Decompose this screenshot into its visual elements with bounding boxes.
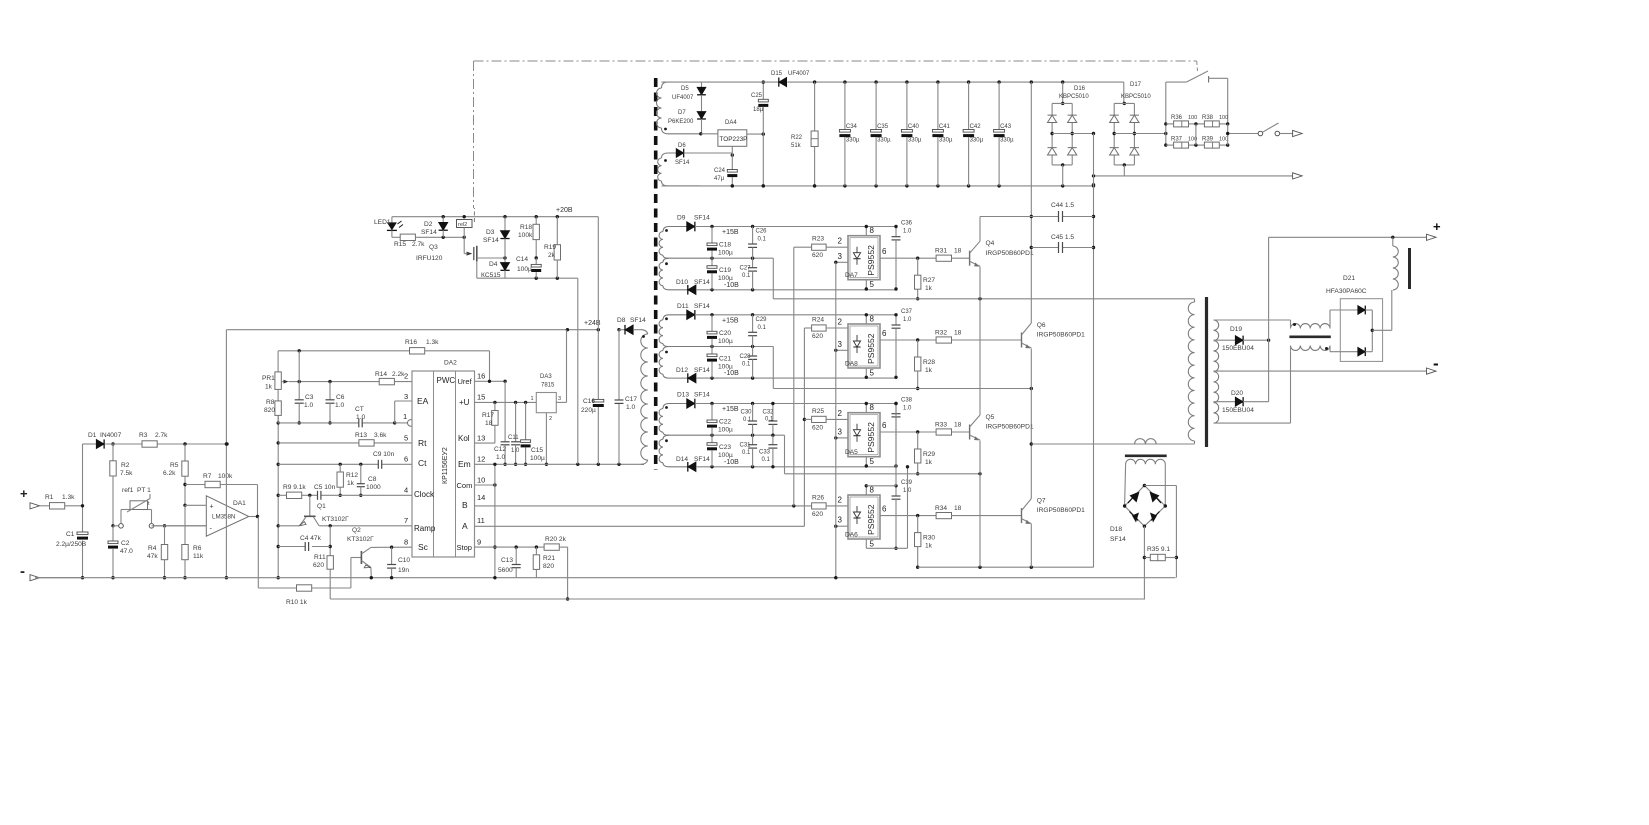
IGBT Q6 IRGP50B60PD1	[1021, 333, 1023, 348]
svg-text:7.5k: 7.5k	[120, 470, 133, 477]
svg-text:0.1: 0.1	[758, 237, 767, 243]
wire DA6 pin8	[865, 486, 867, 495]
wire output plus line	[1269, 236, 1427, 238]
wire 7815 output	[556, 401, 566, 403]
svg-text:7815: 7815	[541, 383, 555, 389]
svg-text:330µ: 330µ	[908, 138, 922, 144]
svg-text:IRGP50B60PD1: IRGP50B60PD1	[1037, 507, 1085, 514]
capacitor C14	[535, 258, 537, 264]
wire DA7 pin3	[836, 261, 848, 263]
svg-text:C27: C27	[740, 266, 752, 272]
wire ch4 pin5 row	[866, 547, 907, 549]
capacitor C17	[615, 399, 624, 401]
resistor R18	[535, 217, 537, 225]
svg-text:620: 620	[812, 511, 823, 518]
svg-text:D3: D3	[486, 229, 495, 236]
svg-text:ref1: ref1	[122, 487, 134, 494]
svg-text:PT 1: PT 1	[137, 487, 151, 494]
svg-text:R13: R13	[355, 432, 367, 439]
wire ch1 common line	[772, 258, 774, 299]
svg-text:IRGP50B60PD1: IRGP50B60PD1	[986, 424, 1034, 431]
svg-text:R7: R7	[203, 473, 212, 480]
svg-text:14: 14	[477, 493, 485, 502]
svg-text:PS9552: PS9552	[866, 504, 876, 535]
svg-text:D16: D16	[1074, 86, 1086, 92]
svg-text:8: 8	[870, 226, 875, 235]
wire Ramp row pin7	[319, 525, 412, 527]
capacitor C25	[762, 82, 764, 99]
border dash-dot chassis outline	[474, 60, 1197, 62]
capacitor C29	[752, 315, 754, 333]
diode D6	[676, 149, 683, 158]
svg-text:C21: C21	[719, 356, 731, 363]
svg-text:1: 1	[531, 396, 534, 402]
svg-text:UF4007: UF4007	[672, 95, 694, 101]
svg-text:11k: 11k	[193, 553, 204, 560]
svg-text:SF14: SF14	[421, 229, 437, 236]
svg-text:9: 9	[477, 538, 481, 547]
wire bottom DC rail	[662, 185, 1094, 187]
svg-text:D1: D1	[88, 432, 97, 439]
resistor R38	[1204, 121, 1219, 127]
svg-text:2: 2	[404, 372, 408, 381]
wire C44 row	[980, 216, 1059, 218]
wire B trunk to R23	[793, 247, 795, 506]
wire output minus line	[1214, 370, 1427, 372]
svg-text:PS9552: PS9552	[866, 333, 876, 364]
svg-text:DA3: DA3	[540, 374, 552, 380]
svg-text:P6KE200: P6KE200	[668, 119, 694, 125]
svg-text:R39: R39	[1202, 137, 1214, 143]
svg-text:C28: C28	[740, 354, 752, 360]
wire D18 bottom to R35 left	[1143, 526, 1145, 557]
svg-text:IRFU120: IRFU120	[416, 255, 443, 262]
svg-text:IN4007: IN4007	[100, 432, 122, 439]
wire TOP223 control pin	[731, 146, 733, 155]
opto-driver DA6 PS9552	[848, 495, 880, 539]
svg-text:C43: C43	[1000, 124, 1012, 130]
svg-text:+15B: +15B	[722, 229, 739, 236]
wire DA7 pin5	[865, 280, 867, 289]
resistor R20	[544, 544, 559, 550]
resistor R1	[50, 503, 65, 509]
svg-text:1k: 1k	[347, 480, 355, 487]
diode D15	[779, 78, 787, 87]
svg-text:D8: D8	[617, 317, 626, 324]
svg-text:R9 9.1k: R9 9.1k	[283, 484, 306, 491]
svg-text:R6: R6	[193, 545, 202, 552]
resistor R14	[379, 378, 394, 384]
resistor R16	[410, 348, 425, 354]
svg-text:Q3: Q3	[429, 244, 438, 251]
svg-text:DA1: DA1	[233, 500, 246, 507]
svg-text:D12: D12	[676, 367, 688, 374]
diode D9	[687, 222, 695, 232]
capacitor C30	[752, 404, 754, 422]
svg-text:100: 100	[1219, 115, 1228, 121]
resistor R7	[185, 484, 205, 486]
svg-text:D4: D4	[489, 261, 498, 268]
svg-text:UF4007: UF4007	[788, 71, 810, 77]
svg-text:SF14: SF14	[694, 367, 710, 374]
svg-text:1.0: 1.0	[335, 402, 344, 409]
svg-text:R35 9.1: R35 9.1	[1147, 546, 1170, 553]
svg-text:DA8: DA8	[845, 361, 858, 368]
capacitor C22	[711, 404, 713, 421]
transformer T1 secondary winding ch2 upper	[663, 315, 687, 320]
svg-text:2: 2	[549, 416, 552, 422]
wire opto pin3 trunk	[835, 262, 837, 577]
svg-text:3: 3	[838, 516, 843, 525]
svg-text:IRGP50B60PD1: IRGP50B60PD1	[986, 250, 1034, 257]
svg-text:R28: R28	[923, 359, 935, 366]
svg-text:R1: R1	[45, 494, 54, 501]
transformer T4 current sense primary	[1135, 439, 1157, 444]
svg-text:0.1: 0.1	[742, 362, 751, 368]
svg-text:C16: C16	[583, 398, 595, 405]
svg-text:DA7: DA7	[845, 272, 858, 279]
svg-text:D11: D11	[677, 303, 689, 310]
wire DA7 pin8	[865, 227, 867, 236]
svg-text:+U: +U	[459, 398, 470, 407]
svg-text:C23: C23	[719, 444, 731, 451]
wire rectifier cathode bus	[1268, 237, 1270, 401]
IGBT Q7 IRGP50B60PD1	[1021, 508, 1023, 523]
svg-text:R2: R2	[121, 462, 130, 469]
diode D12	[688, 373, 696, 383]
svg-text:0.1: 0.1	[765, 417, 774, 423]
svg-text:1k: 1k	[925, 543, 933, 550]
wire 7815 gnd pin2	[545, 413, 547, 465]
svg-text:18: 18	[954, 505, 962, 512]
svg-text:Q1: Q1	[317, 503, 326, 510]
opto-driver DA8 PS9552	[848, 324, 880, 368]
svg-text:SF14: SF14	[694, 215, 710, 222]
wire Com row pin10	[475, 484, 495, 486]
svg-text:5: 5	[404, 434, 408, 443]
svg-text:HFA30PA60C: HFA30PA60C	[1326, 288, 1367, 295]
svg-text:D9: D9	[677, 215, 686, 222]
wire ch2 common line	[772, 347, 774, 389]
svg-text:R24: R24	[812, 317, 824, 324]
wire DA7 output row	[880, 257, 936, 259]
wire +20B drop	[597, 217, 599, 400]
svg-text:D7: D7	[678, 110, 686, 116]
capacitor C6	[329, 382, 331, 400]
wire ch4 supply from ch3 +15B	[895, 404, 897, 486]
svg-text:330µ: 330µ	[939, 138, 953, 144]
svg-text:1000: 1000	[366, 484, 381, 491]
svg-text:C17: C17	[625, 396, 637, 403]
svg-text:2.2µ/250B: 2.2µ/250B	[56, 541, 87, 548]
svg-text:2: 2	[838, 409, 843, 418]
svg-text:A: A	[462, 521, 468, 531]
capacitor C21	[711, 347, 713, 355]
svg-text:Kol: Kol	[458, 434, 470, 443]
capacitor bank C34 C35 C40 C41 C42 C43	[844, 82, 846, 129]
svg-text:620: 620	[812, 252, 823, 259]
svg-text:C37: C37	[901, 309, 913, 315]
svg-text:-10B: -10B	[724, 282, 739, 289]
svg-text:C4 47k: C4 47k	[300, 535, 322, 542]
diode D19 150EBU04	[1214, 339, 1236, 341]
svg-text:Em: Em	[458, 459, 471, 469]
wire ch2 -10B rail	[696, 377, 896, 379]
svg-text:330µ: 330µ	[846, 138, 860, 144]
svg-text:C39: C39	[901, 480, 913, 486]
inductor output choke winding A	[1291, 324, 1331, 329]
svg-text:+: +	[20, 486, 28, 501]
svg-text:330µ: 330µ	[877, 138, 891, 144]
diode D21b	[1358, 347, 1365, 356]
svg-text:100µ: 100µ	[718, 250, 733, 257]
capacitor C3	[298, 351, 300, 400]
capacitor C19	[711, 258, 713, 266]
capacitor C23	[711, 435, 713, 443]
svg-text:Stop: Stop	[457, 543, 472, 552]
wire ch3 -10B rail	[696, 466, 896, 468]
wire DA8 pin5	[865, 368, 867, 377]
svg-text:18: 18	[954, 422, 962, 429]
svg-text:R32: R32	[935, 330, 947, 337]
svg-text:R22: R22	[791, 135, 803, 141]
capacitor C9	[377, 460, 379, 469]
wire TOP223 source to C25	[747, 133, 764, 135]
svg-text:Ramp: Ramp	[414, 524, 436, 533]
zener D4	[504, 258, 506, 263]
svg-text:5: 5	[870, 369, 875, 378]
svg-text:1.0: 1.0	[496, 454, 505, 461]
capacitor C18	[711, 227, 713, 244]
IC DA2 KR1156EU2 PWM controller	[412, 371, 475, 557]
svg-text:1.0: 1.0	[304, 402, 313, 409]
svg-text:C26: C26	[756, 229, 768, 235]
svg-text:KT3102Г: KT3102Г	[322, 516, 349, 523]
svg-text:100µ: 100µ	[718, 338, 733, 345]
svg-text:1.0: 1.0	[903, 229, 912, 235]
LED LED1	[391, 217, 393, 223]
svg-text:+15B: +15B	[722, 317, 739, 324]
svg-text:1k: 1k	[925, 367, 933, 374]
svg-text:Clock: Clock	[414, 490, 435, 499]
IC DA4 TOP223P	[718, 130, 747, 147]
resistor R2	[112, 444, 114, 461]
capacitor C26	[752, 227, 754, 245]
svg-text:R4: R4	[148, 545, 157, 552]
svg-text:D20: D20	[1231, 390, 1243, 397]
resistor R5	[184, 444, 186, 461]
svg-text:13: 13	[477, 434, 485, 443]
svg-text:Sc: Sc	[418, 542, 429, 552]
svg-text:C9 10n: C9 10n	[373, 451, 395, 458]
svg-text:D13: D13	[677, 392, 689, 399]
svg-text:KBPC5010: KBPC5010	[1059, 94, 1089, 100]
svg-text:0.1: 0.1	[742, 450, 751, 456]
wire ch4 minus10 link	[907, 467, 909, 549]
svg-text:Q5: Q5	[986, 414, 995, 421]
wire ch1 mid rail	[712, 257, 773, 259]
svg-text:C33: C33	[759, 450, 771, 456]
svg-text:R12: R12	[346, 472, 358, 479]
wire ch4 common return	[918, 566, 1094, 568]
svg-text:820: 820	[264, 407, 275, 414]
resistor R27	[917, 258, 919, 275]
wire control ground bus x278	[277, 416, 279, 578]
svg-text:C12: C12	[494, 446, 506, 453]
svg-text:330µ: 330µ	[970, 138, 984, 144]
svg-text:100k: 100k	[218, 473, 233, 480]
svg-text:0.1: 0.1	[758, 325, 767, 331]
svg-text:18: 18	[485, 420, 493, 427]
svg-text:-10B: -10B	[724, 370, 739, 377]
svg-text:SF14: SF14	[630, 317, 646, 324]
svg-text:100µ: 100µ	[718, 427, 733, 434]
wire B row pin14	[475, 505, 814, 507]
svg-text:R19: R19	[544, 244, 556, 251]
wire +24B rail	[226, 329, 598, 331]
resistor R10	[258, 587, 296, 589]
svg-text:1k: 1k	[925, 459, 933, 466]
wire D17 AC line to resistor network	[1114, 133, 1166, 135]
wire A trunk to R24 R25	[804, 327, 811, 329]
resistor R30	[917, 516, 919, 533]
svg-text:220µ: 220µ	[581, 407, 596, 414]
bridge D18 SF14	[1125, 486, 1145, 507]
svg-text:100µ: 100µ	[718, 452, 733, 459]
wire feedback rail B	[330, 598, 1145, 600]
transformer T4 secondary	[1126, 459, 1166, 464]
capacitor CT	[358, 418, 360, 427]
svg-text:DA2: DA2	[444, 360, 457, 367]
svg-text:3.6k: 3.6k	[374, 432, 387, 439]
svg-text:C8: C8	[368, 476, 377, 483]
svg-text:D17: D17	[1130, 82, 1142, 88]
diode D13	[687, 399, 695, 409]
svg-text:0.1: 0.1	[743, 417, 752, 423]
wire left leg bus mid	[979, 267, 981, 416]
IC DA3 7815 regulator	[536, 393, 556, 413]
svg-text:5: 5	[870, 457, 875, 466]
svg-text:12: 12	[477, 455, 485, 464]
capacitor C36	[895, 227, 897, 237]
wire A row pin11	[475, 525, 805, 527]
wire EA wiper row	[289, 381, 380, 383]
svg-text:R30: R30	[923, 535, 935, 542]
svg-text:SF14: SF14	[694, 456, 710, 463]
svg-text:150EBU04: 150EBU04	[1222, 345, 1254, 352]
wire ch2 mid rail	[712, 346, 773, 348]
diode D7 P6KE200	[701, 104, 703, 112]
svg-text:C14: C14	[516, 256, 528, 263]
wire +U row pin15	[475, 401, 537, 403]
wire right leg bus	[1030, 82, 1032, 323]
svg-text:8: 8	[404, 538, 408, 547]
svg-text:R34: R34	[935, 505, 947, 512]
svg-text:D10: D10	[676, 279, 688, 286]
svg-text:R25: R25	[812, 408, 824, 415]
svg-text:EA: EA	[417, 396, 429, 406]
svg-text:51k: 51k	[791, 143, 802, 149]
wire Stop row pin9	[475, 546, 517, 548]
svg-text:2: 2	[838, 495, 843, 504]
inductor output filter	[1393, 246, 1399, 290]
svg-text:C41: C41	[939, 124, 951, 130]
svg-text:-: -	[1433, 354, 1439, 373]
resistor R6	[184, 505, 186, 544]
svg-text:D2: D2	[424, 221, 433, 228]
diode D3	[504, 217, 506, 231]
svg-text:R29: R29	[923, 451, 935, 458]
wire DA5 pin3	[836, 437, 848, 439]
svg-text:-10B: -10B	[724, 459, 739, 466]
svg-text:620: 620	[313, 562, 324, 569]
svg-text:C29: C29	[756, 317, 768, 323]
wire DA8 pin8	[865, 315, 867, 324]
svg-text:LM358N: LM358N	[212, 514, 235, 521]
wire Rt row pin5	[278, 442, 359, 444]
svg-text:47k: 47k	[147, 553, 158, 560]
svg-text:6: 6	[882, 421, 887, 430]
svg-text:Q7: Q7	[1037, 498, 1046, 505]
svg-text:8: 8	[870, 486, 875, 495]
wire gnd drop x494	[494, 464, 496, 577]
transformer T1 secondary winding ch3 upper	[663, 404, 687, 409]
svg-text:6: 6	[882, 329, 887, 338]
wire D1 row	[105, 443, 142, 445]
svg-text:R27: R27	[923, 277, 935, 284]
trimmer PR1	[277, 351, 279, 372]
svg-text:1.0: 1.0	[511, 448, 520, 454]
svg-text:3: 3	[404, 392, 408, 401]
wire +20B rail	[392, 216, 598, 218]
svg-text:6: 6	[404, 455, 408, 464]
transistor Q1 KT3102	[309, 495, 311, 516]
resistor R33	[936, 429, 951, 435]
svg-text:C45 1.5: C45 1.5	[1051, 234, 1074, 241]
capacitor C1	[77, 532, 88, 535]
wire snubber vertical x1093	[1093, 134, 1095, 568]
svg-text:CT: CT	[355, 406, 364, 413]
svg-text:C40: C40	[908, 124, 920, 130]
svg-text:PR1: PR1	[262, 375, 275, 382]
capacitor C12	[504, 381, 506, 442]
wire D18 top to R35 right	[1144, 485, 1176, 487]
svg-text:C35: C35	[877, 124, 889, 130]
capacitor C8	[360, 464, 362, 483]
transformer T1 secondary winding ch1 upper	[663, 227, 687, 232]
inductor output choke winding B	[1291, 346, 1331, 351]
resistor R39	[1204, 142, 1219, 148]
svg-text:D6: D6	[678, 143, 686, 149]
svg-text:1.0: 1.0	[356, 414, 365, 421]
svg-text:R16: R16	[405, 339, 417, 346]
wire ch3 mid rail	[712, 434, 785, 436]
capacitor C33	[772, 435, 774, 445]
wire DA6 pin3	[836, 525, 848, 527]
svg-text:5: 5	[870, 540, 875, 549]
svg-text:6: 6	[882, 247, 887, 256]
wire Em row pin12	[475, 463, 645, 465]
svg-text:R8: R8	[266, 399, 275, 406]
svg-text:1k: 1k	[265, 384, 273, 391]
switch S1	[1258, 131, 1263, 136]
svg-text:R15: R15	[394, 241, 406, 248]
wire primary return row	[1031, 443, 1194, 445]
transformer T2 feedback winding	[662, 153, 677, 158]
wire +24B feed vertical x226	[225, 330, 227, 578]
wire Sc row pin8	[371, 546, 412, 548]
resistor R34	[936, 513, 951, 519]
